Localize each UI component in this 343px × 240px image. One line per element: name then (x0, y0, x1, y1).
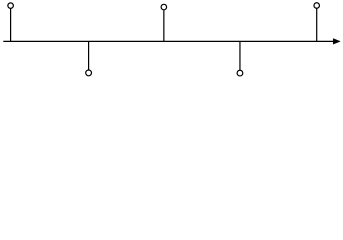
event circle E2 (86, 70, 92, 76)
event stem E5 (top right) (316, 9, 318, 42)
event circle E3 (161, 4, 167, 10)
arrowhead (333, 39, 340, 45)
timeline axis (3, 40, 334, 42)
event stem E4 (bottom, second) (239, 41, 241, 70)
event stem E3 (top middle) (163, 10, 165, 41)
event stem E2 (bottom, first) (88, 41, 90, 70)
event circle E4 (237, 70, 243, 76)
event stem E1 (top left) (10, 9, 12, 42)
event circle E1 (8, 3, 14, 9)
event circle E5 (314, 3, 320, 9)
